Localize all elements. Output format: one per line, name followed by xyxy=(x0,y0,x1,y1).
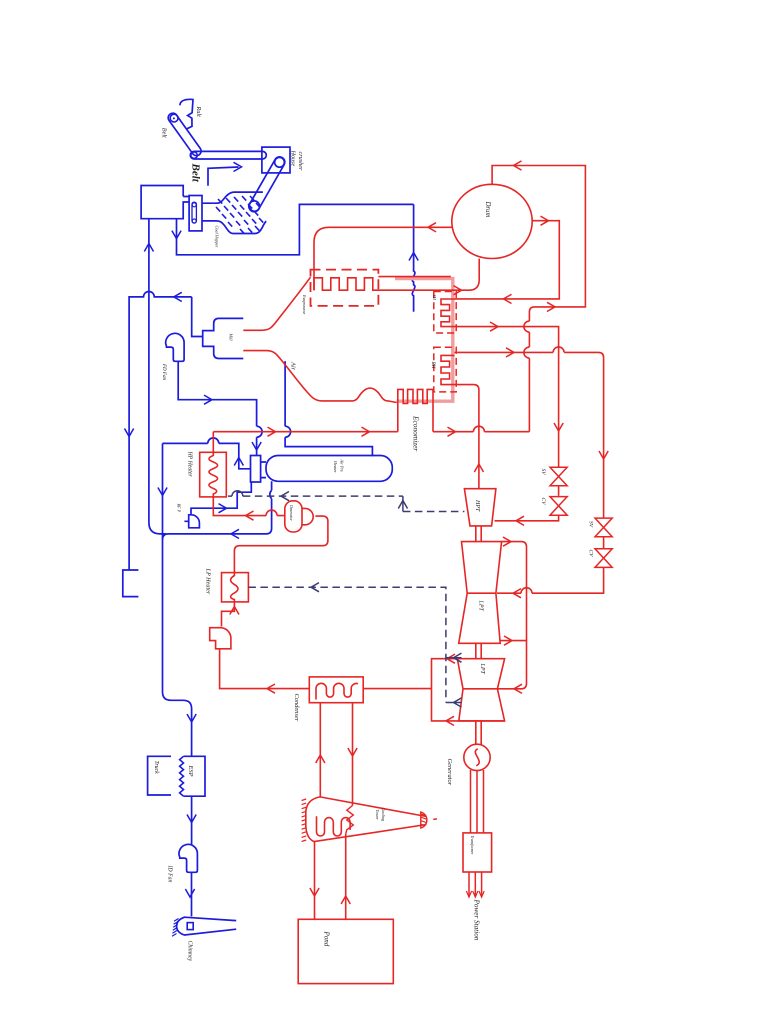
svg-text:Power Station: Power Station xyxy=(473,899,481,941)
svg-text:LP Heater: LP Heater xyxy=(205,568,212,595)
svg-text:Drum: Drum xyxy=(484,201,491,218)
svg-text:FD Fan: FD Fan xyxy=(161,363,166,380)
svg-text:House: House xyxy=(289,150,296,167)
svg-text:SH: SH xyxy=(432,295,437,301)
svg-text:Condenser: Condenser xyxy=(293,694,300,722)
svg-text:LPT: LPT xyxy=(478,600,484,612)
svg-text:Cooling: Cooling xyxy=(381,808,386,822)
svg-text:Belt: Belt xyxy=(161,128,168,138)
svg-text:CV: CV xyxy=(540,498,546,506)
svg-text:BF P: BF P xyxy=(177,504,182,513)
svg-text:ID Fan: ID Fan xyxy=(167,865,173,883)
svg-text:Generator: Generator xyxy=(446,759,453,786)
svg-text:Truck: Truck xyxy=(153,761,159,775)
svg-text:SV: SV xyxy=(540,469,546,476)
svg-text:Pond: Pond xyxy=(323,931,331,947)
svg-text:Mill: Mill xyxy=(229,333,234,342)
svg-text:Heater: Heater xyxy=(333,460,338,473)
svg-text:Transformer: Transformer xyxy=(470,836,474,856)
svg-text:ESP: ESP xyxy=(187,765,194,777)
svg-text:Belt: Belt xyxy=(190,163,202,183)
svg-text:HP Heater: HP Heater xyxy=(187,451,193,478)
svg-text:Economizer: Economizer xyxy=(411,415,420,451)
svg-text:RH: RH xyxy=(430,361,436,369)
svg-text:crusher: crusher xyxy=(297,152,304,171)
svg-text:SV: SV xyxy=(588,521,594,528)
svg-text:Tower: Tower xyxy=(375,810,380,821)
svg-text:Coal Hopper: Coal Hopper xyxy=(215,226,220,248)
svg-text:Evaporator: Evaporator xyxy=(302,294,307,315)
svg-text:CV: CV xyxy=(588,550,594,558)
svg-text:Rult: Rult xyxy=(195,106,202,118)
svg-text:Chimney: Chimney xyxy=(187,941,193,962)
svg-text:Deaerator: Deaerator xyxy=(289,504,293,521)
svg-text:HPT: HPT xyxy=(474,499,480,512)
svg-text:LPT: LPT xyxy=(479,663,485,675)
svg-text:Air: Air xyxy=(290,361,297,371)
svg-text:Air Pre: Air Pre xyxy=(340,459,345,472)
